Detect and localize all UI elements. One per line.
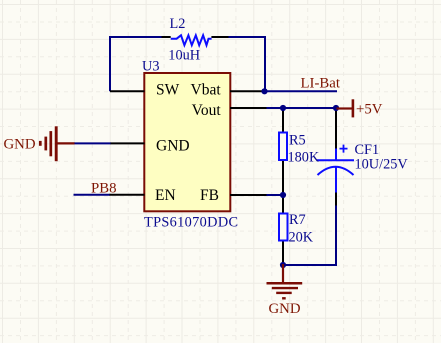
inductor L2 zigzag body (171, 35, 212, 45)
svg-text:GND: GND (4, 137, 36, 153)
node : junction Vout / CF1 top (333, 105, 339, 111)
pin GND of U3 (111, 142, 145, 144)
svg-text:GND: GND (269, 301, 301, 317)
ground : earth ground symbol at bottom node (267, 264, 303, 298)
wire : top horizontal from L2 right and vertical down to Vbat node (229, 37, 266, 91)
svg-text:+5V: +5V (356, 101, 383, 117)
pin : R5 top lead (282, 108, 284, 133)
wire : bottom node wire from R7 bottom to CF1 bottom (283, 205, 336, 265)
pin : L2 left lead (162, 36, 171, 38)
pin Vout of U3 (230, 107, 267, 109)
resistor R5 body (279, 133, 287, 161)
svg-text:10U/25V: 10U/25V (355, 157, 409, 173)
svg-text:180K: 180K (288, 150, 320, 166)
wire : LI-Bat net wire from Vbat node (265, 90, 338, 92)
pin EN of U3 (110, 194, 145, 196)
node : junction R7 bottom / GND (280, 262, 286, 268)
node : junction Vout / R5 top (280, 105, 286, 111)
svg-text:EN: EN (155, 187, 176, 204)
pin FB of U3 (230, 194, 267, 196)
svg-text:Vbat: Vbat (191, 82, 222, 99)
power +5V bar power port (337, 99, 353, 117)
svg-text:PB8: PB8 (91, 180, 117, 196)
wire : SW loop left vertical and top horizontal to L2 (110, 37, 162, 91)
pin : R7 top lead (282, 195, 284, 214)
resistor R7 body (279, 214, 288, 241)
svg-text:R7: R7 (289, 212, 306, 228)
IC U3 : TPS61070DDC body (144, 73, 230, 211)
pin : R7 bottom lead (282, 241, 284, 266)
pin : R5 bottom lead (282, 160, 284, 196)
svg-text:10uH: 10uH (168, 48, 200, 64)
svg-text:SW: SW (156, 82, 180, 99)
svg-text:R5: R5 (289, 133, 306, 149)
wire : PB8 wire to EN pin (74, 194, 111, 196)
svg-text:U3: U3 (142, 59, 159, 75)
capacitor CF1 plus polarity mark (340, 145, 348, 153)
pin Vbat of U3 (230, 90, 264, 92)
svg-text:Vout: Vout (192, 102, 222, 119)
wire : FB pin wire to divider node (266, 194, 283, 196)
node : junction Vbat / L2 (261, 88, 267, 94)
svg-text:20K: 20K (289, 230, 314, 246)
capacitor CF1 curved bottom plate and lead (318, 167, 354, 193)
svg-text:TPS61070DDC: TPS61070DDC (144, 215, 238, 231)
svg-text:FB: FB (200, 187, 219, 204)
pin : L2 right lead (211, 36, 228, 38)
wire : GND pin wire (left) (74, 142, 111, 144)
pin : CF1 top lead (335, 109, 337, 149)
pin : CF1 bottom lead (335, 192, 337, 206)
node : junction FB / R5 / R7 (280, 192, 286, 198)
pin SW of U3 (110, 90, 145, 92)
ground : power ground symbol at U3 GND pin (left) (40, 126, 74, 161)
capacitor CF1 top plate and lead (317, 149, 354, 161)
svg-text:GND: GND (156, 137, 190, 154)
svg-text:LI-Bat: LI-Bat (301, 76, 341, 92)
svg-text:L2: L2 (170, 16, 186, 32)
wire : Vout to +5V row (266, 107, 337, 109)
